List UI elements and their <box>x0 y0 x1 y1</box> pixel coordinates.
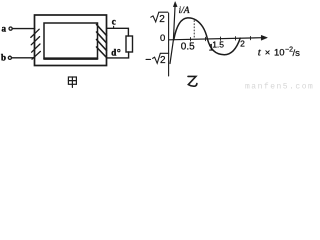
transformer core inner rectangle <box>44 23 98 59</box>
x-axis t <box>169 38 262 40</box>
svg-text:a: a <box>2 24 7 34</box>
y-axis arrowhead <box>173 2 177 7</box>
x-axis ticks <box>191 36 251 41</box>
core inner bottom thick edge <box>45 57 98 59</box>
node c tick <box>113 26 115 28</box>
svg-text:1.5: 1.5 <box>212 39 224 49</box>
sine curve <box>174 18 240 55</box>
secondary winding L2 hatches <box>97 25 107 58</box>
svg-text:b: b <box>1 52 6 62</box>
svg-text:/s: /s <box>293 48 301 59</box>
transformer core outer rectangle <box>35 15 107 66</box>
svg-text:t: t <box>258 46 262 58</box>
node d circle <box>118 49 120 51</box>
wire a lead <box>12 28 34 30</box>
y-axis i <box>170 7 175 64</box>
svg-text:2: 2 <box>159 14 165 25</box>
label yi (figure 2) <box>188 76 197 86</box>
x-axis arrowhead <box>261 35 267 40</box>
svg-text:2: 2 <box>240 39 245 49</box>
svg-text:i/A: i/A <box>179 6 190 16</box>
label jia (figure 1) <box>68 77 76 87</box>
svg-text:c: c <box>112 17 116 27</box>
terminal a circle <box>9 27 12 30</box>
wire load bottom to secondary <box>107 52 129 58</box>
x-axis unit label t x10^-2/s <box>258 46 300 59</box>
svg-text:0: 0 <box>160 33 165 44</box>
svg-text:10: 10 <box>274 47 285 58</box>
load box d <box>126 36 133 52</box>
sqrt2 label top <box>151 12 168 25</box>
peak dotted line <box>193 21 195 38</box>
svg-text:×: × <box>265 47 271 58</box>
wire secondary top to load <box>107 28 129 36</box>
svg-text:d: d <box>111 47 116 57</box>
svg-text:0.5: 0.5 <box>181 42 195 53</box>
terminal b circle <box>8 56 11 59</box>
svg-text:manfen5.com: manfen5.com <box>245 82 314 91</box>
wire b lead <box>12 57 35 59</box>
svg-text:2: 2 <box>160 55 166 66</box>
minus sqrt2 label bottom <box>146 13 169 76</box>
primary winding L1 hatches <box>31 29 41 59</box>
